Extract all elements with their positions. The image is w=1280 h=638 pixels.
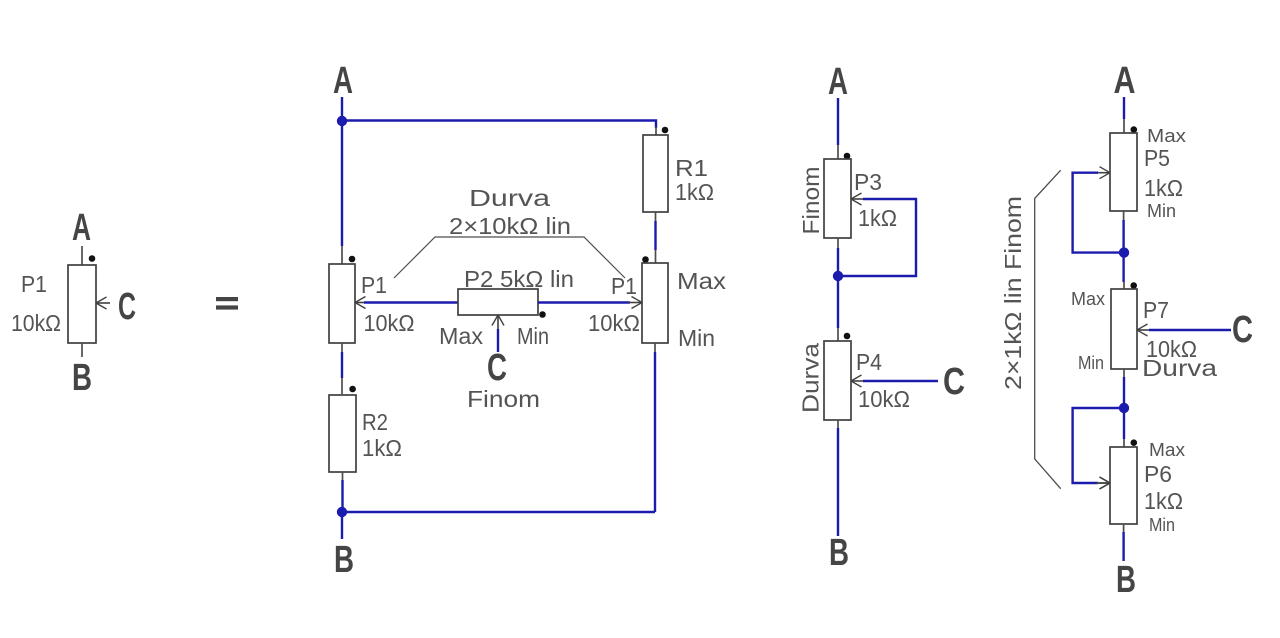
svg-text:10kΩ: 10kΩ <box>11 310 61 336</box>
svg-text:1kΩ: 1kΩ <box>362 435 402 461</box>
svg-text:A: A <box>72 207 91 249</box>
svg-text:C: C <box>1232 309 1253 351</box>
svg-text:P3: P3 <box>854 169 882 195</box>
svg-text:P6: P6 <box>1144 461 1172 487</box>
svg-text:1kΩ: 1kΩ <box>1144 175 1183 201</box>
svg-text:Max: Max <box>1149 440 1185 460</box>
svg-text:Min: Min <box>1149 515 1175 535</box>
svg-text:Durva: Durva <box>469 185 550 211</box>
svg-text:R2: R2 <box>362 409 388 435</box>
svg-text:P2 5kΩ lin: P2 5kΩ lin <box>464 266 574 292</box>
svg-text:A: A <box>828 61 848 103</box>
svg-text:Max: Max <box>1147 126 1186 146</box>
svg-text:Min: Min <box>1147 201 1176 221</box>
svg-text:10kΩ: 10kΩ <box>588 310 640 336</box>
svg-text:P1: P1 <box>21 271 47 297</box>
svg-text:1kΩ: 1kΩ <box>675 179 714 205</box>
svg-text:B: B <box>72 357 92 399</box>
svg-text:C: C <box>943 361 965 403</box>
svg-text:P1: P1 <box>611 273 637 299</box>
svg-text:P1: P1 <box>361 272 387 298</box>
svg-text:C: C <box>118 286 136 328</box>
svg-text:Max: Max <box>1071 289 1105 309</box>
svg-text:C: C <box>487 347 507 389</box>
svg-text:B: B <box>829 532 849 574</box>
svg-text:Finom: Finom <box>467 386 540 412</box>
svg-text:Max: Max <box>677 268 727 294</box>
svg-text:B: B <box>1116 559 1136 601</box>
svg-text:Max: Max <box>439 323 484 349</box>
svg-text:Min: Min <box>517 323 549 349</box>
svg-text:P7: P7 <box>1143 297 1169 323</box>
svg-text:10kΩ: 10kΩ <box>858 386 910 412</box>
svg-text:Finom: Finom <box>798 167 824 235</box>
svg-text:10kΩ: 10kΩ <box>364 310 415 336</box>
svg-text:Durva: Durva <box>798 343 824 413</box>
svg-text:2×10kΩ lin: 2×10kΩ lin <box>449 213 571 239</box>
svg-text:1kΩ: 1kΩ <box>1144 488 1183 514</box>
svg-text:A: A <box>1114 60 1136 102</box>
svg-text:2×1kΩ lin Finom: 2×1kΩ lin Finom <box>1000 196 1026 390</box>
svg-text:R1: R1 <box>675 155 708 181</box>
svg-text:Durva: Durva <box>1142 355 1217 381</box>
svg-text:Min: Min <box>678 325 715 351</box>
svg-text:B: B <box>334 539 354 581</box>
svg-text:A: A <box>333 60 353 102</box>
svg-text:Min: Min <box>1078 353 1104 373</box>
svg-text:P5: P5 <box>1144 145 1170 171</box>
svg-text:1kΩ: 1kΩ <box>858 205 897 231</box>
svg-text:P4: P4 <box>856 349 882 375</box>
